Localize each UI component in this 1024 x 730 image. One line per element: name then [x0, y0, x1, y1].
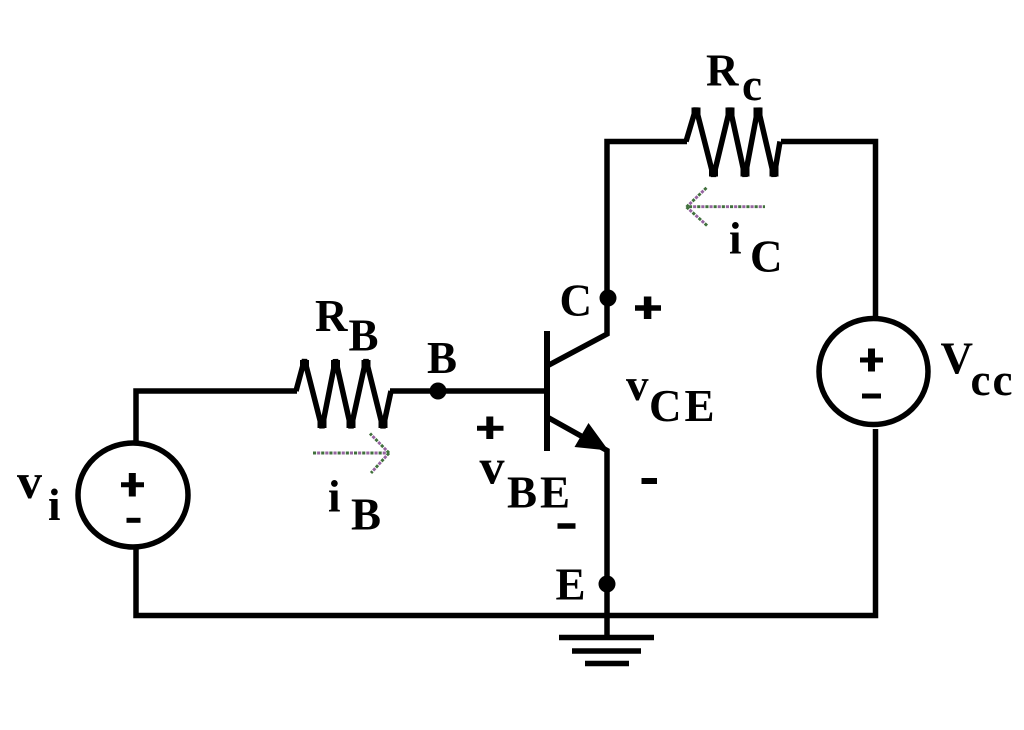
svg-text:BE: BE	[507, 468, 573, 518]
svg-text:B: B	[351, 490, 381, 540]
svg-text:C: C	[560, 276, 593, 326]
svg-text:i: i	[729, 213, 742, 263]
svg-text:v: v	[480, 439, 505, 495]
svg-text:i: i	[328, 472, 341, 522]
svg-text:R: R	[706, 45, 739, 95]
svg-text:R: R	[315, 291, 348, 341]
svg-text:c: c	[742, 60, 762, 110]
svg-text:cc: cc	[971, 355, 1015, 405]
svg-text:v: v	[626, 360, 649, 410]
svg-text:B: B	[427, 333, 457, 383]
svg-text:CE: CE	[649, 381, 718, 431]
svg-text:V: V	[941, 334, 974, 384]
svg-text:C: C	[750, 231, 783, 281]
svg-text:i: i	[48, 480, 61, 530]
svg-text:v: v	[17, 453, 42, 509]
svg-text:B: B	[349, 311, 379, 361]
svg-text:E: E	[556, 560, 586, 610]
